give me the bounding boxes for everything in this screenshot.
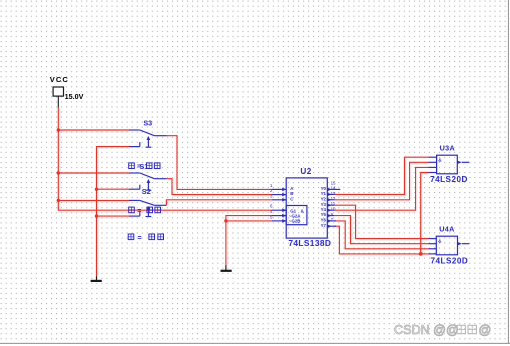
switch S2 bbox=[129, 200, 166, 216]
wire Y6 to U4A input 3 bbox=[334, 221, 429, 249]
svg-text:Y4: Y4 bbox=[321, 207, 327, 212]
U2 input labels A B C bbox=[290, 186, 294, 201]
svg-text:CSDN @@: CSDN @@ bbox=[394, 323, 459, 337]
svg-text:U3A: U3A bbox=[440, 144, 455, 153]
U2 right pin arrows bbox=[327, 188, 331, 228]
svg-text:U4A: U4A bbox=[439, 225, 454, 234]
svg-text:Y7: Y7 bbox=[321, 223, 327, 228]
U2 right pin stubs bbox=[327, 189, 340, 226]
watermark CSDN bbox=[394, 323, 459, 337]
wire S1 bottom feed bbox=[97, 188, 130, 190]
junction VCC rail / S1 top bbox=[57, 171, 60, 174]
wire Y5 to U4A input 2 bbox=[334, 216, 429, 244]
ground 1 bbox=[91, 276, 102, 282]
svg-text:Y2: Y2 bbox=[321, 196, 327, 201]
junction VCC rail / S3 top bbox=[57, 128, 60, 131]
svg-text:11: 11 bbox=[331, 201, 336, 206]
wire Y1 to U3A input 1 bbox=[334, 157, 429, 194]
svg-text:Y6: Y6 bbox=[321, 218, 327, 223]
svg-text:=: = bbox=[137, 208, 141, 215]
wire S3 top feed bbox=[58, 129, 129, 131]
label S1 key = space bbox=[129, 162, 160, 171]
svg-text:74LS20D: 74LS20D bbox=[430, 175, 468, 184]
wire S2 bottom feed bbox=[97, 215, 130, 217]
junction G2B tap bbox=[224, 219, 227, 222]
U3A input stubs bbox=[429, 157, 437, 172]
switch S1 bbox=[129, 173, 167, 190]
wire VCC vertical rail to G1 bbox=[58, 108, 272, 211]
nand gate U3A body bbox=[437, 155, 470, 174]
svg-text:VCC: VCC bbox=[50, 75, 69, 84]
svg-text:15.0V: 15.0V bbox=[65, 92, 84, 101]
svg-text:14: 14 bbox=[331, 185, 336, 190]
wire Y4 to U3A input 3 bbox=[334, 167, 429, 210]
wire S1 output to U2 pin B bbox=[167, 179, 273, 195]
wire Y3 to U4A input 1 bbox=[334, 205, 429, 238]
nand gate U4A body bbox=[436, 236, 469, 255]
U2 left pin stubs bbox=[272, 189, 286, 221]
label S2 key = space (upper) bbox=[129, 207, 161, 215]
svg-text:Y5: Y5 bbox=[321, 212, 327, 217]
svg-text:S2: S2 bbox=[142, 187, 151, 196]
svg-text:S3: S3 bbox=[143, 119, 152, 128]
wire S2 output to U2 pin C bbox=[166, 200, 272, 206]
svg-text:S1: S1 bbox=[140, 162, 149, 171]
decoder U2 74LS138D body bbox=[286, 178, 327, 238]
wire G2B tap bbox=[226, 220, 272, 222]
U2 left pin arrows bbox=[282, 188, 286, 223]
wire S3 output to U2 pin A bbox=[167, 136, 273, 190]
U2 right pin numbers bbox=[331, 180, 336, 222]
wire switch-common ground rail bbox=[97, 147, 130, 277]
U2 enable labels G1 & ~G2A ~G2B bbox=[289, 208, 305, 223]
wire S1 top feed bbox=[58, 172, 129, 174]
wire U3A input 4 to Y7 net bbox=[421, 173, 429, 254]
ground 2 bbox=[221, 265, 232, 272]
U4A input stubs bbox=[429, 239, 437, 254]
junction ground rail / S2 bottom bbox=[95, 214, 98, 217]
svg-text:=: = bbox=[138, 235, 142, 242]
svg-text:74LS20D: 74LS20D bbox=[431, 256, 469, 265]
U2 left pin numbers bbox=[270, 183, 273, 220]
wire VCC stem (black) bbox=[57, 96, 59, 108]
wire Y7 to U4A input 4 bbox=[334, 226, 429, 254]
switch S3 bbox=[129, 130, 167, 147]
U2 output labels Y0-Y7 bbox=[321, 186, 327, 228]
junction VCC rail / S2 top bbox=[57, 199, 60, 202]
svg-text:10: 10 bbox=[331, 207, 336, 212]
svg-text:U2: U2 bbox=[300, 167, 311, 176]
svg-text:74LS138D: 74LS138D bbox=[288, 238, 331, 248]
power source VCC bbox=[50, 75, 84, 101]
svg-text:@: @ bbox=[479, 323, 492, 337]
label key = space (lower) bbox=[128, 234, 163, 242]
junction ground rail / S1 bottom bbox=[95, 188, 98, 191]
wire S2 top feed bbox=[58, 199, 129, 201]
wire G2A to ground 2 bbox=[226, 216, 272, 266]
svg-text:~G2B: ~G2B bbox=[289, 219, 301, 224]
wire Y2 to U3A input 2 bbox=[334, 162, 429, 200]
svg-text:13: 13 bbox=[331, 191, 336, 196]
junction Y7 / U3A input 4 bbox=[419, 252, 423, 256]
